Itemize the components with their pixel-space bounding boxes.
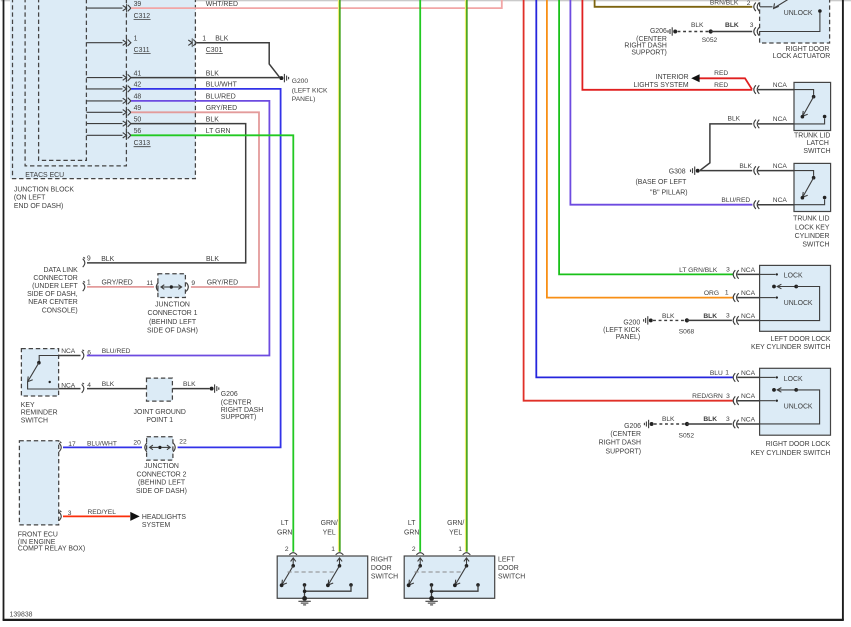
svg-text:INTERIOR: INTERIOR bbox=[656, 74, 689, 81]
svg-text:3: 3 bbox=[726, 416, 730, 423]
svg-text:GRN/: GRN/ bbox=[321, 520, 338, 527]
svg-text:BLK: BLK bbox=[101, 256, 114, 263]
svg-text:LEFT: LEFT bbox=[498, 556, 516, 563]
svg-text:GRY/RED: GRY/RED bbox=[207, 279, 238, 286]
svg-text:DOOR: DOOR bbox=[371, 565, 392, 572]
svg-text:RIGHT DOOR: RIGHT DOOR bbox=[785, 46, 829, 53]
svg-text:CYLINDER: CYLINDER bbox=[795, 233, 830, 240]
svg-text:3: 3 bbox=[726, 267, 730, 274]
svg-text:UNLOCK: UNLOCK bbox=[784, 10, 813, 17]
svg-text:BLK: BLK bbox=[206, 116, 219, 123]
svg-text:REMINDER: REMINDER bbox=[21, 410, 58, 417]
svg-text:BLK: BLK bbox=[206, 70, 219, 77]
svg-text:2: 2 bbox=[285, 546, 289, 553]
svg-text:(UNDER LEFT: (UNDER LEFT bbox=[32, 283, 78, 290]
svg-text:NCA: NCA bbox=[741, 370, 756, 377]
svg-text:(CENTER: (CENTER bbox=[610, 431, 641, 438]
svg-text:50: 50 bbox=[134, 116, 142, 123]
svg-text:COMPT RELAY BOX): COMPT RELAY BOX) bbox=[18, 546, 85, 553]
svg-text:SWITCH: SWITCH bbox=[21, 417, 48, 424]
svg-text:BLK: BLK bbox=[215, 35, 228, 42]
svg-text:G200: G200 bbox=[292, 78, 309, 85]
svg-text:LT: LT bbox=[281, 520, 289, 527]
svg-text:NCA: NCA bbox=[741, 290, 756, 297]
svg-text:G206: G206 bbox=[624, 423, 641, 430]
svg-text:POINT 1: POINT 1 bbox=[146, 417, 173, 424]
svg-text:LIGHTS SYSTEM: LIGHTS SYSTEM bbox=[633, 82, 688, 89]
svg-text:(BEHIND LEFT: (BEHIND LEFT bbox=[149, 319, 197, 326]
svg-text:NCA: NCA bbox=[741, 416, 756, 423]
svg-text:BLK: BLK bbox=[739, 163, 752, 170]
svg-text:BLU/RED: BLU/RED bbox=[206, 94, 236, 101]
svg-text:BLU/WHT: BLU/WHT bbox=[206, 82, 238, 89]
svg-text:RIGHT DOOR LOCK: RIGHT DOOR LOCK bbox=[766, 441, 831, 448]
svg-text:C312: C312 bbox=[134, 13, 151, 20]
svg-text:C313: C313 bbox=[134, 140, 151, 147]
svg-text:"B" PILLAR): "B" PILLAR) bbox=[650, 189, 687, 196]
svg-text:G206: G206 bbox=[221, 391, 238, 398]
svg-text:JUNCTION BLOCK: JUNCTION BLOCK bbox=[14, 186, 75, 193]
svg-text:PANEL): PANEL) bbox=[292, 96, 316, 103]
svg-text:SYSTEM: SYSTEM bbox=[142, 522, 171, 529]
svg-text:SIDE OF DASH,: SIDE OF DASH, bbox=[27, 291, 78, 298]
svg-text:TRUNK LID: TRUNK LID bbox=[794, 133, 830, 140]
svg-text:NCA: NCA bbox=[773, 163, 788, 170]
svg-text:9: 9 bbox=[87, 256, 91, 263]
svg-text:TRUNK LID: TRUNK LID bbox=[793, 216, 829, 223]
svg-text:SIDE OF DASH): SIDE OF DASH) bbox=[147, 327, 198, 334]
svg-text:22: 22 bbox=[179, 439, 187, 446]
svg-text:LEFT DOOR LOCK: LEFT DOOR LOCK bbox=[771, 336, 831, 343]
svg-text:BLK: BLK bbox=[703, 313, 717, 320]
svg-text:CONNECTOR 2: CONNECTOR 2 bbox=[136, 471, 186, 478]
svg-text:GRY/RED: GRY/RED bbox=[206, 105, 237, 112]
svg-text:BLK: BLK bbox=[183, 381, 196, 388]
svg-text:49: 49 bbox=[134, 105, 142, 112]
svg-text:48: 48 bbox=[134, 94, 142, 101]
svg-text:LOCK KEY: LOCK KEY bbox=[795, 224, 830, 231]
svg-text:LATCH: LATCH bbox=[807, 140, 829, 147]
svg-text:CONNECTOR 1: CONNECTOR 1 bbox=[147, 310, 197, 317]
svg-text:2: 2 bbox=[747, 0, 751, 7]
svg-text:GRY/RED: GRY/RED bbox=[102, 279, 133, 286]
svg-text:6: 6 bbox=[87, 349, 91, 356]
svg-text:BLK: BLK bbox=[728, 116, 741, 123]
svg-text:139838: 139838 bbox=[10, 611, 33, 618]
svg-text:BLK: BLK bbox=[102, 381, 115, 388]
svg-text:ORG: ORG bbox=[704, 290, 719, 297]
svg-text:(LEFT KICK: (LEFT KICK bbox=[292, 87, 328, 94]
svg-text:SWITCH: SWITCH bbox=[371, 573, 398, 580]
svg-text:JUNCTION: JUNCTION bbox=[144, 463, 179, 470]
svg-text:DOOR: DOOR bbox=[498, 565, 519, 572]
svg-text:(CENTER: (CENTER bbox=[221, 399, 252, 406]
svg-text:1: 1 bbox=[725, 370, 729, 377]
svg-text:RIGHT DASH: RIGHT DASH bbox=[221, 407, 263, 414]
svg-text:NCA: NCA bbox=[773, 116, 788, 123]
svg-text:11: 11 bbox=[146, 280, 153, 287]
svg-text:RED/GRN: RED/GRN bbox=[692, 393, 723, 400]
svg-text:BLK: BLK bbox=[662, 313, 675, 320]
svg-text:NCA: NCA bbox=[773, 197, 788, 204]
svg-text:41: 41 bbox=[134, 70, 142, 77]
svg-text:RIGHT: RIGHT bbox=[371, 556, 393, 563]
svg-text:FRONT ECU: FRONT ECU bbox=[18, 531, 58, 538]
svg-text:BLK: BLK bbox=[662, 416, 675, 423]
svg-text:NCA: NCA bbox=[61, 382, 76, 389]
svg-text:S052: S052 bbox=[702, 37, 718, 44]
svg-text:NCA: NCA bbox=[61, 348, 76, 355]
svg-text:HEADLIGHTS: HEADLIGHTS bbox=[142, 514, 186, 521]
svg-text:1: 1 bbox=[134, 35, 138, 42]
svg-text:9: 9 bbox=[191, 280, 195, 287]
svg-text:RIGHT DASH: RIGHT DASH bbox=[624, 42, 666, 49]
svg-text:C311: C311 bbox=[134, 47, 150, 54]
svg-text:BLK: BLK bbox=[206, 256, 219, 263]
svg-text:BLK: BLK bbox=[725, 22, 739, 29]
svg-text:G200: G200 bbox=[623, 319, 640, 326]
svg-text:1: 1 bbox=[202, 35, 206, 42]
svg-text:20: 20 bbox=[133, 439, 141, 446]
svg-text:CONSOLE): CONSOLE) bbox=[42, 308, 78, 315]
svg-text:PANEL): PANEL) bbox=[616, 334, 640, 341]
svg-text:(BEHIND LEFT: (BEHIND LEFT bbox=[138, 480, 186, 487]
svg-text:LOCK: LOCK bbox=[784, 272, 803, 279]
svg-text:JUNCTION: JUNCTION bbox=[155, 302, 190, 309]
svg-text:RIGHT DASH: RIGHT DASH bbox=[599, 440, 641, 447]
svg-text:S068: S068 bbox=[679, 329, 695, 336]
svg-text:C301: C301 bbox=[206, 47, 223, 54]
svg-text:RED: RED bbox=[714, 82, 728, 89]
svg-text:UNLOCK: UNLOCK bbox=[784, 403, 813, 410]
svg-text:1: 1 bbox=[725, 290, 729, 297]
svg-text:GRN: GRN bbox=[404, 529, 419, 536]
svg-text:UNLOCK: UNLOCK bbox=[784, 300, 813, 307]
svg-text:SUPPORT): SUPPORT) bbox=[606, 449, 641, 456]
svg-text:KEY CYLINDER SWITCH: KEY CYLINDER SWITCH bbox=[751, 344, 831, 351]
svg-text:GRN/: GRN/ bbox=[447, 520, 464, 527]
svg-text:3: 3 bbox=[750, 22, 754, 29]
svg-text:DATA LINK: DATA LINK bbox=[43, 267, 78, 274]
svg-text:LT GRN/BLK: LT GRN/BLK bbox=[679, 267, 718, 274]
svg-text:(BASE OF LEFT: (BASE OF LEFT bbox=[635, 179, 687, 186]
svg-text:G206: G206 bbox=[650, 28, 667, 35]
svg-text:(ON LEFT: (ON LEFT bbox=[14, 195, 46, 202]
svg-text:BRN/BLK: BRN/BLK bbox=[710, 0, 739, 6]
svg-text:BLU/RED: BLU/RED bbox=[721, 197, 750, 204]
svg-text:LOCK: LOCK bbox=[784, 376, 803, 383]
svg-text:39: 39 bbox=[134, 1, 142, 8]
svg-text:BLU/RED: BLU/RED bbox=[102, 348, 131, 355]
svg-text:ETACS ECU: ETACS ECU bbox=[25, 172, 64, 179]
svg-text:NCA: NCA bbox=[741, 393, 756, 400]
svg-text:3: 3 bbox=[726, 313, 730, 320]
svg-text:BLK: BLK bbox=[691, 22, 704, 29]
svg-text:RED: RED bbox=[714, 70, 728, 77]
svg-text:42: 42 bbox=[134, 82, 142, 89]
svg-text:LT: LT bbox=[408, 520, 416, 527]
svg-text:SUPPORT): SUPPORT) bbox=[221, 414, 256, 421]
svg-text:NCA: NCA bbox=[773, 82, 788, 89]
svg-text:KEY CYLINDER SWITCH: KEY CYLINDER SWITCH bbox=[751, 450, 831, 457]
svg-text:1: 1 bbox=[87, 280, 91, 287]
svg-text:CONNECTOR: CONNECTOR bbox=[33, 275, 77, 282]
svg-text:KEY: KEY bbox=[21, 402, 35, 409]
svg-text:JOINT GROUND: JOINT GROUND bbox=[134, 409, 186, 416]
svg-text:(LEFT KICK: (LEFT KICK bbox=[603, 327, 640, 334]
svg-text:G308: G308 bbox=[669, 169, 686, 176]
svg-text:1: 1 bbox=[331, 546, 335, 553]
svg-text:SWITCH: SWITCH bbox=[802, 242, 829, 249]
svg-text:END OF DASH): END OF DASH) bbox=[14, 203, 63, 210]
svg-text:GRN: GRN bbox=[277, 529, 292, 536]
svg-text:56: 56 bbox=[134, 128, 142, 135]
svg-text:LOCK ACTUATOR: LOCK ACTUATOR bbox=[773, 53, 831, 60]
svg-text:NCA: NCA bbox=[741, 267, 756, 274]
svg-text:SIDE OF DASH): SIDE OF DASH) bbox=[136, 488, 187, 495]
svg-text:SUPPORT): SUPPORT) bbox=[631, 49, 666, 56]
svg-text:3: 3 bbox=[726, 393, 730, 400]
svg-text:NEAR CENTER: NEAR CENTER bbox=[28, 299, 77, 306]
svg-text:RED/YEL: RED/YEL bbox=[88, 509, 117, 516]
svg-text:SWITCH: SWITCH bbox=[498, 573, 525, 580]
svg-text:LT GRN: LT GRN bbox=[206, 128, 231, 135]
svg-text:BLU: BLU bbox=[710, 370, 723, 377]
svg-text:SWITCH: SWITCH bbox=[803, 148, 830, 155]
svg-text:YEL: YEL bbox=[323, 529, 336, 536]
svg-text:YEL: YEL bbox=[449, 529, 462, 536]
svg-text:S052: S052 bbox=[679, 433, 695, 440]
svg-text:BLK: BLK bbox=[703, 416, 717, 423]
svg-text:NCA: NCA bbox=[741, 313, 756, 320]
svg-text:WHT/RED: WHT/RED bbox=[206, 1, 238, 8]
